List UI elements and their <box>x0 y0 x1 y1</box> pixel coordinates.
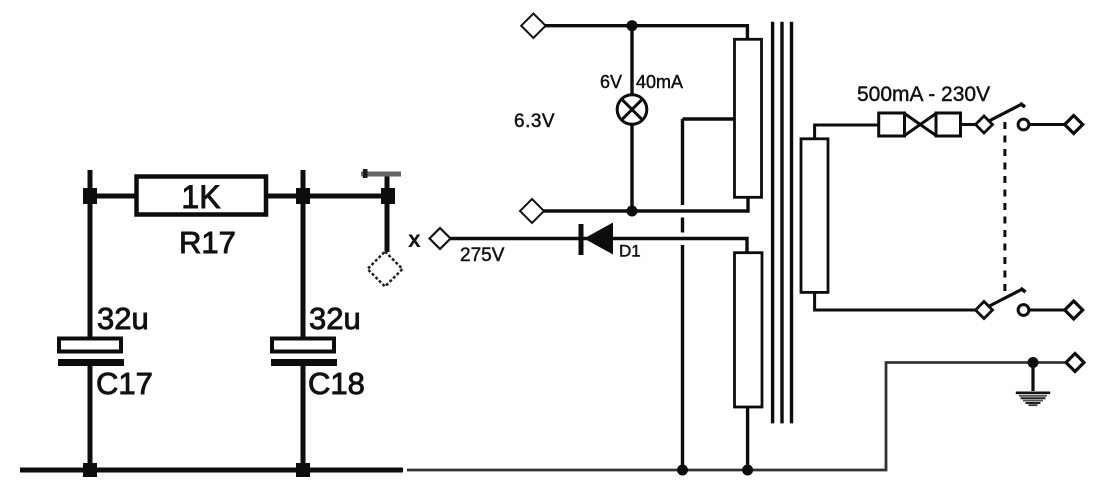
svg-text:R17: R17 <box>179 225 236 260</box>
svg-text:500mA - 230V: 500mA - 230V <box>857 83 990 106</box>
svg-text:C17: C17 <box>96 366 153 401</box>
svg-text:32u: 32u <box>97 301 149 336</box>
svg-text:C18: C18 <box>308 366 365 401</box>
svg-text:40mA: 40mA <box>636 72 683 92</box>
svg-text:1K: 1K <box>181 179 220 215</box>
svg-text:6.3V: 6.3V <box>514 111 555 132</box>
svg-text:32u: 32u <box>309 301 361 336</box>
svg-text:275V: 275V <box>460 245 505 266</box>
svg-text:6V: 6V <box>600 72 622 92</box>
svg-text:D1: D1 <box>619 242 641 261</box>
svg-text:x: x <box>408 226 421 252</box>
